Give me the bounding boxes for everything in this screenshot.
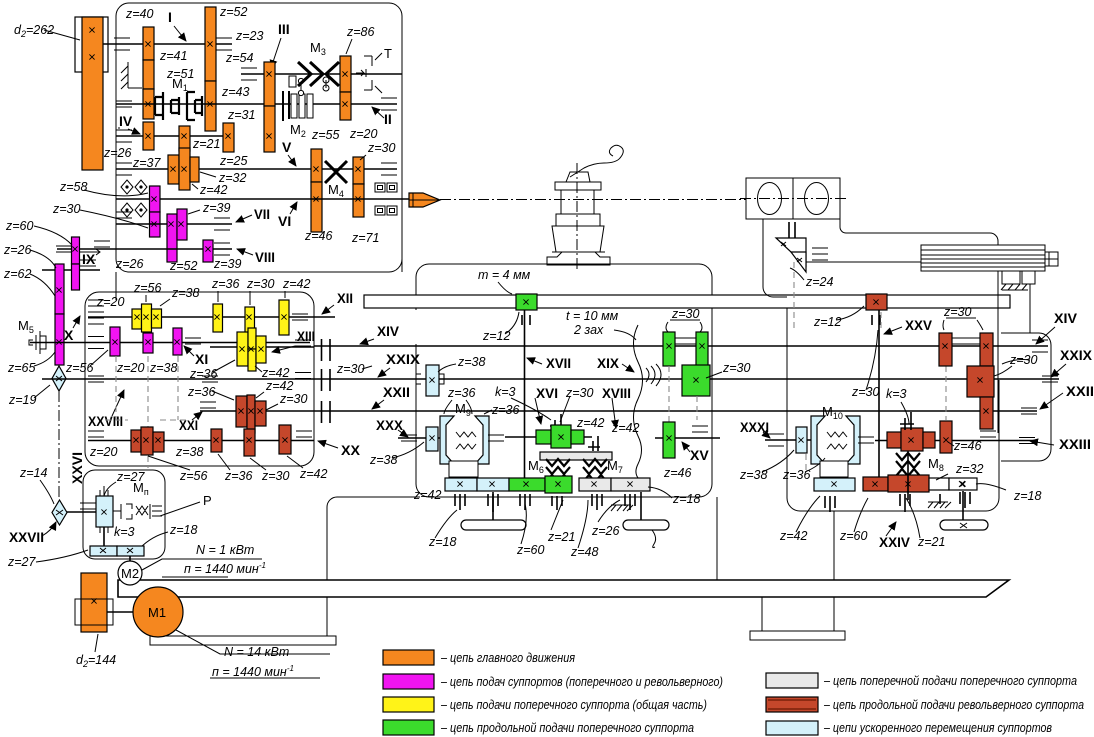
frame C apron — [416, 264, 712, 497]
svg-text:z=58: z=58 — [59, 180, 88, 194]
svg-text:z=21: z=21 — [192, 137, 220, 151]
svg-text:z=12: z=12 — [482, 329, 511, 343]
bevel z=24 — [776, 238, 806, 266]
dashed verticals — [794, 262, 946, 474]
svg-text:z=42: z=42 — [299, 467, 328, 481]
svg-text:z=30: z=30 — [851, 385, 880, 399]
shaft VII — [116, 223, 232, 225]
dark red big block — [967, 366, 994, 397]
svg-text:z=38: z=38 — [175, 445, 204, 459]
svg-text:XXIX: XXIX — [1060, 347, 1093, 363]
svg-text:z=18: z=18 — [169, 523, 198, 537]
svg-text:z=12: z=12 — [813, 315, 842, 329]
spindle centerline — [440, 199, 748, 201]
support left — [327, 497, 420, 580]
svg-text:II: II — [384, 111, 392, 127]
gear z=56 z=38 yellow — [142, 304, 152, 332]
svg-text:XIII: XIII — [297, 328, 315, 344]
svg-text:X: X — [64, 327, 74, 343]
svg-text:z=60: z=60 — [516, 543, 545, 557]
dark red XXII cluster z=36 z=42 z=30 — [236, 396, 247, 427]
svg-text:z=36: z=36 — [187, 385, 216, 399]
dark red z=30 — [244, 429, 255, 456]
clutch M4 — [325, 161, 347, 183]
gear z=42 yellow — [279, 300, 289, 335]
svg-text:z=37: z=37 — [132, 156, 162, 170]
svg-text:z=30: z=30 — [943, 305, 972, 319]
shaft XXX — [398, 437, 443, 439]
gear z=26 (on IV) — [143, 122, 154, 150]
svg-text:VII: VII — [254, 206, 270, 222]
overrunning diamonds — [121, 180, 133, 194]
shaft to Mp — [67, 511, 96, 513]
svg-text:z=36: z=36 — [211, 277, 240, 291]
svg-text:XXI: XXI — [179, 417, 198, 433]
chuck drawing — [547, 145, 623, 270]
pinion z=12 green — [516, 294, 537, 310]
motor M1 — [107, 611, 134, 613]
gear cross marks — [56, 27, 988, 603]
gear z=54 — [205, 81, 216, 131]
brake P symbol — [113, 504, 162, 519]
svg-text:z=38: z=38 — [739, 468, 768, 482]
svg-text:XXVII: XXVII — [9, 529, 44, 545]
svg-text:z=38: z=38 — [369, 453, 398, 467]
turret — [746, 178, 793, 219]
lightblue bar under P — [90, 546, 117, 556]
dashed preselect lines — [105, 356, 190, 468]
shaft V — [116, 168, 397, 170]
shaft X / XI — [30, 342, 310, 344]
svg-text:V: V — [282, 139, 292, 155]
svg-text:z=55: z=55 — [311, 128, 340, 142]
gear z=40 stack — [143, 27, 154, 60]
shaft XXV vertical — [878, 310, 880, 477]
svg-text:z=42: z=42 — [779, 529, 808, 543]
svg-text:XXIX: XXIX — [386, 351, 421, 367]
svg-text:IX: IX — [82, 251, 96, 267]
svg-text:z=36: z=36 — [447, 386, 476, 400]
svg-text:d2=144: d2=144 — [76, 653, 116, 669]
svg-text:z=32: z=32 — [955, 462, 984, 476]
svg-text:z=14: z=14 — [19, 466, 48, 480]
svg-text:z=46: z=46 — [304, 229, 333, 243]
svg-text:z=21: z=21 — [547, 530, 575, 544]
green pair z=30 on XIV — [663, 332, 675, 366]
svg-text:m = 4 мм: m = 4 мм — [478, 268, 531, 282]
svg-text:XVI: XVI — [536, 385, 558, 401]
gear z=60/26 magenta left — [72, 237, 80, 264]
svg-text:z=30: z=30 — [246, 277, 275, 291]
lightblue z=38 small — [426, 427, 438, 451]
shaft IV — [116, 135, 232, 137]
gear z=31 — [223, 123, 234, 152]
gear z=37 cluster — [168, 155, 179, 184]
frame E right end — [1001, 333, 1051, 461]
svg-text:z=30: z=30 — [279, 392, 308, 406]
frame A headstock — [116, 3, 402, 272]
svg-text:z=18: z=18 — [1013, 489, 1042, 503]
svg-text:z=62: z=62 — [3, 267, 32, 281]
dark red z=36 — [211, 429, 222, 452]
gear z=30 / z=71 — [353, 157, 364, 184]
svg-text:z=42: z=42 — [282, 277, 311, 291]
shaft XV — [655, 437, 720, 439]
svg-text:z=56: z=56 — [133, 281, 162, 295]
handwheel — [940, 520, 988, 530]
lightblue z=38 — [796, 427, 807, 453]
shaft VIII — [57, 248, 232, 250]
svg-text:z=46: z=46 — [663, 466, 692, 480]
svg-text:2 зах: 2 зах — [573, 323, 604, 337]
shaft I — [103, 43, 232, 45]
svg-text:k=3: k=3 — [114, 525, 135, 539]
gear z=86 / z=20 — [340, 56, 351, 92]
svg-text:z=36: z=36 — [491, 403, 520, 417]
gear z=52 — [205, 7, 216, 81]
svg-text:z=42: z=42 — [413, 488, 442, 502]
gear z=39b magenta — [203, 240, 213, 262]
handwheel left — [461, 520, 526, 530]
shaft XIII yellow cluster — [210, 346, 314, 348]
svg-text:z=43: z=43 — [221, 85, 250, 99]
svg-text:z=46: z=46 — [953, 439, 982, 453]
svg-text:M2: M2 — [121, 566, 139, 581]
svg-text:– цепь продольной подачи попер: – цепь продольной подачи поперечного суп… — [440, 721, 694, 735]
svg-text:z=56: z=56 — [179, 469, 208, 483]
gear z=58 magenta — [150, 186, 161, 212]
svg-text:z=39: z=39 — [213, 257, 242, 271]
wall support hatch — [121, 62, 142, 89]
shaft III — [241, 73, 402, 75]
shaft XVI — [505, 436, 592, 438]
motor M2 — [118, 561, 142, 585]
svg-text:z=86: z=86 — [346, 25, 375, 39]
frame D right apron — [787, 308, 999, 511]
svg-text:z=71: z=71 — [351, 231, 379, 245]
svg-text:k=3: k=3 — [495, 385, 516, 399]
lightblue z=38 on XXIX — [426, 365, 439, 396]
apron bar row — [445, 478, 477, 491]
svg-text:z=42: z=42 — [265, 379, 294, 393]
dark red z=42 — [279, 425, 291, 454]
svg-text:z=52: z=52 — [219, 5, 248, 19]
diamond z=14 — [52, 500, 67, 525]
svg-text:XIV: XIV — [1054, 310, 1078, 326]
svg-text:III: III — [278, 21, 290, 37]
brake T — [356, 53, 382, 93]
bed — [118, 580, 1009, 597]
clutch M2 — [283, 91, 289, 121]
svg-text:z=26: z=26 — [115, 257, 144, 271]
clutch M5 — [29, 331, 46, 354]
svg-text:XXV: XXV — [905, 317, 933, 333]
gear z=20 magenta — [143, 333, 153, 353]
support right — [716, 497, 718, 580]
gear z=38 magenta — [173, 328, 182, 355]
svg-text:z=30: z=30 — [336, 362, 365, 376]
svg-text:XXXI: XXXI — [740, 419, 769, 435]
clutch M1 — [155, 92, 202, 120]
shaft VI — [116, 198, 410, 200]
shaft XXVI vertical — [58, 391, 60, 500]
M9 assembly — [440, 386, 520, 477]
tool slide block — [921, 245, 1045, 271]
dark red z=46 — [940, 421, 952, 453]
svg-text:IV: IV — [119, 113, 133, 129]
svg-text:– цепь продольной подачи револ: – цепь продольной подачи револьверного с… — [823, 698, 1084, 712]
svg-text:VIII: VIII — [255, 249, 275, 265]
svg-text:– цепь главного движения: – цепь главного движения — [440, 651, 575, 665]
svg-text:z=54: z=54 — [225, 51, 254, 65]
svg-text:XXVIII: XXVIII — [88, 413, 123, 429]
leadscrew XIX wavy — [634, 325, 643, 480]
svg-text:z=25: z=25 — [219, 154, 248, 168]
svg-text:z=31: z=31 — [227, 108, 255, 122]
pulley d2=262 — [82, 17, 103, 170]
svg-text:z=27: z=27 — [7, 555, 37, 569]
svg-text:z=60: z=60 — [5, 219, 34, 233]
gear z=56 magenta — [110, 327, 120, 356]
svg-text:z=24: z=24 — [805, 275, 834, 289]
spindle arrow tool — [409, 193, 440, 207]
shaft XVII vertical — [524, 310, 526, 490]
svg-text:z=56: z=56 — [65, 361, 94, 375]
svg-text:z=52: z=52 — [169, 259, 198, 273]
green z=42 gear — [536, 430, 551, 444]
gear z=30 yellow — [245, 307, 255, 333]
pinion z=12 red — [866, 294, 887, 310]
svg-text:XI: XI — [195, 351, 208, 367]
svg-text:п = 1440 мин-1: п = 1440 мин-1 — [184, 561, 266, 576]
svg-text:z=30: z=30 — [671, 307, 700, 321]
svg-text:z=20: z=20 — [349, 127, 378, 141]
svg-text:z=38: z=38 — [149, 361, 178, 375]
svg-text:z=41: z=41 — [159, 49, 187, 63]
frame B feed box — [85, 292, 314, 466]
gear z=36 yellow — [213, 304, 223, 332]
right bar row — [814, 478, 855, 491]
svg-text:z=40: z=40 — [125, 7, 154, 21]
svg-text:k=3: k=3 — [886, 387, 907, 401]
svg-text:XII: XII — [337, 290, 353, 306]
gear z=21 — [179, 126, 190, 151]
svg-text:XXVI: XXVI — [69, 452, 85, 484]
gear z=20 yellow — [132, 309, 142, 329]
gear z=23 z=43 stack — [264, 62, 275, 106]
svg-text:I: I — [168, 9, 172, 25]
svg-text:XIX: XIX — [597, 355, 620, 371]
svg-text:XX: XX — [341, 442, 361, 458]
rack bar z=42 gray — [540, 452, 612, 460]
legend — [383, 650, 1084, 735]
svg-text:XXIII: XXIII — [1059, 436, 1091, 452]
shaft XIV — [314, 345, 1048, 347]
svg-text:z=42: z=42 — [611, 421, 640, 435]
svg-text:XV: XV — [690, 447, 709, 463]
vertical shaft XXIV — [907, 451, 909, 500]
svg-text:z=20: z=20 — [116, 361, 145, 375]
svg-text:z=42: z=42 — [576, 416, 605, 430]
svg-text:z=18: z=18 — [672, 492, 701, 506]
svg-text:XXII: XXII — [383, 384, 410, 400]
svg-text:VI: VI — [278, 213, 291, 229]
shaft XXII — [200, 410, 1037, 412]
clutch M3 — [298, 62, 339, 86]
green z=46 — [663, 422, 675, 458]
svg-text:z=60: z=60 — [839, 529, 868, 543]
svg-text:z=65: z=65 — [7, 361, 36, 375]
svg-text:z=21: z=21 — [917, 535, 945, 549]
svg-text:z=19: z=19 — [8, 393, 37, 407]
svg-text:z=30: z=30 — [52, 202, 81, 216]
gear z=52 magenta — [167, 214, 177, 262]
svg-text:z=39: z=39 — [202, 201, 231, 215]
rack m=4 — [364, 295, 1010, 308]
shaft IX — [42, 269, 100, 271]
gear z=62/65 magenta tall — [55, 264, 64, 314]
dark red z=20/56 cluster — [131, 430, 141, 452]
diamond z=19 — [52, 366, 66, 391]
svg-text:z=30: z=30 — [722, 361, 751, 375]
svg-text:XVIII: XVIII — [602, 385, 631, 401]
svg-text:z=36: z=36 — [782, 468, 811, 482]
svg-text:P: P — [203, 493, 212, 508]
gear z=51 — [143, 89, 154, 119]
svg-text:z=30: z=30 — [261, 469, 290, 483]
clutch M6 green — [546, 459, 570, 482]
svg-text:XXIV: XXIV — [879, 534, 911, 550]
shaft II — [116, 103, 397, 105]
svg-text:N = 14 кВт: N = 14 кВт — [224, 645, 289, 659]
svg-text:z=20: z=20 — [96, 295, 125, 309]
svg-text:z=20: z=20 — [89, 445, 118, 459]
svg-text:z=26: z=26 — [103, 146, 132, 160]
svg-text:z=23: z=23 — [235, 29, 264, 43]
shaft XII yellow — [88, 316, 335, 318]
svg-text:XIV: XIV — [377, 323, 400, 339]
svg-text:T: T — [384, 46, 392, 61]
motor Mp box — [96, 496, 113, 527]
svg-text:t = 10 мм: t = 10 мм — [566, 309, 619, 323]
svg-text:M1: M1 — [148, 605, 166, 620]
shaft XXIII — [875, 440, 1035, 442]
svg-text:z=38: z=38 — [457, 355, 486, 369]
svg-text:– цепь поперечной подачи попер: – цепь поперечной подачи поперечного суп… — [823, 674, 1077, 688]
turret link lines — [763, 219, 787, 297]
gear z=39 magenta upper — [177, 209, 187, 240]
gear z=55 / z=46 — [311, 149, 322, 182]
pulley d2=262 outer — [75, 17, 108, 72]
shaft XXXI — [765, 439, 812, 441]
svg-text:z=42: z=42 — [199, 183, 228, 197]
dark red pair z=30 on XIV — [939, 333, 952, 366]
shaft XXIX — [42, 378, 1059, 380]
svg-text:п = 1440 мин-1: п = 1440 мин-1 — [212, 664, 294, 679]
bearing squares — [375, 183, 397, 215]
hanger ticks right — [825, 492, 970, 512]
ground hatch — [611, 505, 633, 511]
clutch M7 gray — [583, 459, 607, 482]
M10 assembly — [782, 404, 874, 482]
svg-text:z=18: z=18 — [428, 535, 457, 549]
svg-text:z=27: z=27 — [116, 470, 146, 484]
svg-text:– цепь подачи поперечного супп: – цепь подачи поперечного суппорта (обща… — [440, 698, 707, 712]
svg-text:z=48: z=48 — [570, 545, 599, 559]
svg-text:z=26: z=26 — [3, 243, 32, 257]
svg-text:– цепи ускоренного перемещения: – цепи ускоренного перемещения суппортов — [823, 721, 1052, 735]
svg-text:N = 1 кВт: N = 1 кВт — [196, 543, 254, 557]
handwheel right — [623, 520, 669, 530]
shaft XX — [88, 440, 314, 442]
pulley d2=144 — [81, 573, 107, 632]
frame P — [83, 470, 165, 559]
svg-text:XVII: XVII — [546, 355, 571, 371]
svg-text:z=36: z=36 — [224, 469, 253, 483]
green block z=30 on XXIX — [682, 365, 710, 396]
svg-text:z=26: z=26 — [591, 524, 620, 538]
hanger ticks — [455, 494, 635, 512]
worm z=21 dark red — [887, 432, 901, 448]
svg-text:z=38: z=38 — [171, 286, 200, 300]
svg-text:– цепь подач суппортов (попере: – цепь подач суппортов (поперечного и ре… — [440, 675, 723, 689]
svg-text:XXII: XXII — [1066, 383, 1094, 399]
svg-text:z=42: z=42 — [261, 366, 290, 380]
clutch M8 — [896, 453, 920, 476]
frame A lower edge link — [401, 130, 403, 272]
svg-text:z=30: z=30 — [367, 141, 396, 155]
gear z=41 — [143, 60, 154, 89]
